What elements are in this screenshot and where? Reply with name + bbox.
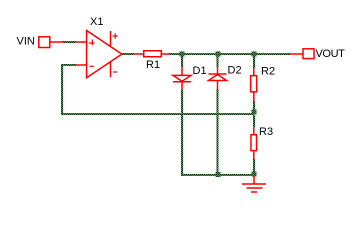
wire VIN port to op-amp noninverting input — [63, 41, 76, 43]
junction at D2 top node — [216, 52, 221, 57]
diode D1 — [173, 67, 191, 90]
ground — [242, 176, 266, 192]
svg-text:VOUT: VOUT — [316, 48, 346, 60]
junction at R2/R3 feedback node — [252, 110, 257, 115]
wire op-amp output to R1 — [122, 53, 134, 55]
svg-text:R1: R1 — [146, 59, 160, 71]
svg-text:VIN: VIN — [17, 36, 35, 48]
svg-text:R3: R3 — [259, 126, 273, 138]
port VIN — [39, 37, 63, 48]
svg-text:R2: R2 — [261, 66, 275, 78]
wire D1 branch top — [181, 54, 183, 67]
op-amp polarity marks — [89, 33, 118, 72]
wire D1 branch bottom — [181, 90, 183, 176]
wire feedback from inverting input — [62, 65, 254, 114]
wire D2 branch top — [217, 54, 219, 67]
wire R3 branch top — [253, 115, 255, 127]
wire R3 branch bottom — [253, 159, 255, 176]
wire R2 branch top — [253, 54, 255, 68]
port VOUT — [289, 49, 314, 59]
resistor R2 — [251, 68, 257, 101]
wire D2 branch bottom — [217, 89, 219, 176]
svg-text:D2: D2 — [228, 65, 242, 77]
wire bottom rail to ground node — [182, 174, 254, 176]
junction at ground node — [252, 171, 257, 176]
svg-text:X1: X1 — [90, 16, 103, 28]
junction at D2 bottom node — [216, 172, 221, 177]
wire R2 branch bottom — [253, 101, 255, 114]
junction at R2 top node — [252, 52, 257, 57]
wire top rail R1 to VOUT — [169, 53, 290, 55]
junction at R1/D1 node — [180, 52, 185, 57]
diode D2 — [209, 67, 227, 89]
resistor R1 — [134, 51, 169, 57]
resistor R3 — [251, 127, 257, 159]
svg-text:D1: D1 — [193, 65, 207, 77]
op-amp X1 — [76, 31, 122, 78]
